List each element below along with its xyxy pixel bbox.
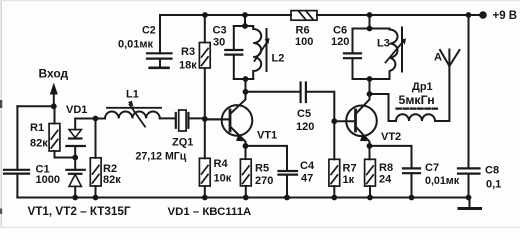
svg-text:C6: C6 <box>333 25 347 37</box>
svg-text:VD1 – КВС111А: VD1 – КВС111А <box>168 206 252 218</box>
svg-text:R1: R1 <box>30 122 44 134</box>
svg-text:120: 120 <box>296 121 314 133</box>
svg-text:120: 120 <box>331 36 349 48</box>
svg-text:0,1: 0,1 <box>486 179 501 191</box>
svg-text:R5: R5 <box>255 163 269 175</box>
svg-text:27,12 МГц: 27,12 МГц <box>136 151 187 163</box>
svg-text:R4: R4 <box>214 158 229 170</box>
svg-text:L3: L3 <box>377 38 390 50</box>
svg-text:Вход: Вход <box>39 67 69 81</box>
svg-text:C2: C2 <box>142 25 156 37</box>
svg-text:A: A <box>434 52 442 64</box>
svg-text:L2: L2 <box>272 53 285 65</box>
svg-text:C8: C8 <box>485 165 499 177</box>
svg-text:10к: 10к <box>214 173 232 185</box>
svg-text:VT1, VT2 – КТ315Г: VT1, VT2 – КТ315Г <box>28 205 131 218</box>
svg-text:C4: C4 <box>300 160 315 172</box>
svg-text:R3: R3 <box>181 46 195 58</box>
svg-text:R6: R6 <box>296 25 310 37</box>
svg-text:VT2: VT2 <box>381 131 401 143</box>
svg-text:+9 В: +9 В <box>493 10 518 22</box>
svg-text:1000: 1000 <box>36 174 60 186</box>
svg-text:5мкГн: 5мкГн <box>399 93 435 107</box>
svg-text:C3: C3 <box>213 25 227 37</box>
svg-text:270: 270 <box>255 175 273 187</box>
svg-text:0,01мк: 0,01мк <box>118 39 154 51</box>
svg-text:18к: 18к <box>179 60 197 72</box>
svg-text:82к: 82к <box>103 174 121 186</box>
svg-text:1к: 1к <box>343 174 355 186</box>
svg-text:R8: R8 <box>379 162 393 174</box>
svg-text:C7: C7 <box>425 162 439 174</box>
svg-text:R7: R7 <box>343 163 357 175</box>
svg-text:Др1: Др1 <box>412 81 433 93</box>
svg-text:24: 24 <box>379 174 392 186</box>
svg-text:C5: C5 <box>297 108 311 120</box>
svg-text:L1: L1 <box>126 89 139 101</box>
svg-text:47: 47 <box>301 173 313 185</box>
svg-text:VT1: VT1 <box>257 130 277 142</box>
svg-text:ZQ1: ZQ1 <box>172 137 193 149</box>
svg-text:VD1: VD1 <box>66 104 87 116</box>
svg-text:82к: 82к <box>30 138 48 150</box>
svg-text:100: 100 <box>295 36 313 48</box>
svg-text:30: 30 <box>213 37 225 49</box>
svg-text:0,01мк: 0,01мк <box>425 175 460 187</box>
